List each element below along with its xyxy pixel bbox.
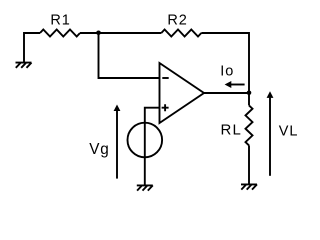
wire left vertical and top to R1 (24, 33, 40, 63)
wire R1 to R2 (80, 32, 161, 34)
resistor R1 (40, 30, 80, 37)
ground (below RL) (241, 184, 257, 189)
ground (below Vg source) (137, 185, 153, 190)
resistor R2 (161, 30, 201, 37)
arrow Io (output current, pointing left) (225, 81, 245, 88)
wire R2 to right vertical down to RL (201, 33, 249, 105)
wire source to ground (144, 157, 146, 185)
wire RL to ground (248, 145, 250, 184)
voltage source Vg (128, 123, 163, 158)
resistor RL (vertical) (246, 105, 253, 145)
svg-text:Vg: Vg (89, 141, 110, 158)
wire non-inverting input to source (145, 108, 160, 123)
node junction dot (inverting input node) (96, 31, 101, 36)
node output junction dot (247, 91, 252, 96)
wire op-amp output to node (204, 92, 249, 94)
arrow Vg (voltage reference arrow) (114, 105, 121, 179)
svg-text:R1: R1 (50, 13, 70, 29)
svg-text:Io: Io (220, 64, 234, 80)
wire junction down to inverting input (99, 33, 160, 78)
svg-text:R2: R2 (167, 12, 187, 28)
svg-text:RL: RL (221, 122, 243, 139)
arrow VL (load voltage reference arrow) (267, 91, 274, 176)
ground (left) (16, 63, 32, 68)
svg-text:VL: VL (279, 124, 299, 140)
op-amp U1 (160, 63, 205, 123)
